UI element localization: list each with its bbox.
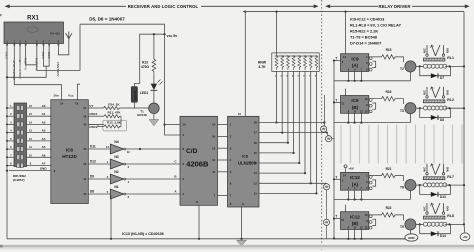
svg-text:T: T	[335, 215, 337, 219]
svg-text:BC548: BC548	[137, 113, 147, 117]
RX1 pin wires	[7, 38, 80, 239]
vcc rail to r13	[135, 34, 165, 86]
svg-text:14: 14	[254, 161, 258, 165]
IC6 right upper pins VT OSC	[88, 108, 104, 124]
ground under T1	[153, 114, 155, 120]
section header: receiver and logic control arrow	[6, 5, 316, 7]
flip-flop IC12 (A), R21, transistor T8, relay RL7, diode D13	[333, 164, 465, 201]
svg-text:17: 17	[83, 106, 87, 110]
svg-text:GND: GND	[40, 167, 48, 171]
inverter N4	[106, 140, 180, 154]
IC6 gnd pin9 wire	[9, 170, 51, 172]
section header: relay driver arrow	[327, 5, 468, 7]
svg-text:vcc 5v: vcc 5v	[167, 34, 178, 38]
svg-text:(B): (B)	[352, 105, 359, 110]
svg-text:N/O: N/O	[446, 89, 450, 95]
+6V terminal for IC12	[344, 165, 347, 168]
svg-text:D in: D in	[54, 94, 59, 98]
svg-text:IC13 (N1-N5) = CD40106: IC13 (N1-N5) = CD40106	[122, 232, 164, 236]
IC8 COM pin10 wire up	[244, 12, 246, 117]
DIP rows / IC6 address pins A0-A7	[7, 108, 51, 166]
svg-text:N2: N2	[114, 170, 118, 174]
svg-text:R12, 3.9K: R12, 3.9K	[107, 121, 122, 125]
svg-text:T: T	[335, 175, 337, 179]
svg-text:T2: T2	[400, 67, 404, 71]
svg-text:N1: N1	[114, 185, 118, 189]
svg-text:IC6: IC6	[66, 148, 74, 153]
svg-text:(A): (A)	[352, 63, 359, 68]
LED1	[151, 84, 158, 90]
svg-text:13: 13	[212, 146, 216, 150]
svg-text:N/O: N/O	[446, 205, 450, 211]
wire links to jumper connectors at section boundary	[324, 95, 334, 239]
vcc wire top run	[78, 24, 181, 135]
svg-text:N/O: N/O	[446, 166, 450, 172]
svg-text:A5: A5	[42, 145, 46, 149]
resistor R12 boxed	[103, 120, 127, 131]
svg-text:IC12: IC12	[350, 214, 360, 219]
IC8 gnd pin9	[241, 207, 243, 240]
svg-text:A7: A7	[42, 162, 46, 166]
svg-text:16: 16	[254, 141, 258, 145]
svg-text:IC12: IC12	[350, 175, 360, 180]
wire pin8 antenna	[58, 38, 68, 55]
wire +6V feed to IC9 pin 14	[345, 12, 347, 54]
svg-text:T9: T9	[400, 225, 404, 229]
IC8 output wires staircase	[259, 123, 327, 194]
DIP rockers	[17, 106, 24, 168]
svg-text:R14, 1K: R14, 1K	[108, 102, 120, 106]
IC7 gnd wire to rail	[198, 205, 200, 239]
inverter N1	[107, 185, 180, 199]
IC7 decoder CD4206B	[180, 116, 218, 205]
svg-text:C/D: C/D	[186, 148, 198, 155]
svg-text:15: 15	[212, 123, 216, 127]
svg-text:470Ω: 470Ω	[141, 65, 149, 69]
wire pin3 linear out stub	[19, 44, 21, 63]
svg-text:D7-D14 = 1N4007: D7-D14 = 1N4007	[350, 41, 381, 46]
svg-text:A0: A0	[42, 104, 46, 108]
svg-text:R16: R16	[386, 90, 392, 94]
+6V supply oval bottom right	[463, 224, 466, 233]
svg-text:LED1: LED1	[140, 91, 149, 95]
svg-text:N/O: N/O	[446, 47, 450, 53]
svg-text:12: 12	[83, 162, 87, 166]
svg-text:A1: A1	[42, 112, 46, 116]
svg-text:D7: D7	[440, 76, 444, 80]
svg-text:VT: VT	[89, 104, 93, 108]
svg-text:(A): (A)	[352, 182, 359, 187]
svg-text:A3: A3	[42, 129, 46, 133]
svg-text:T: T	[335, 98, 337, 102]
svg-text:15: 15	[83, 123, 87, 127]
svg-text:HT12D: HT12D	[62, 154, 77, 159]
svg-text:10: 10	[83, 192, 87, 196]
svg-text:D8: D8	[90, 189, 94, 193]
svg-text:16: 16	[83, 114, 87, 118]
svg-text:12: 12	[254, 181, 258, 185]
svg-text:RL7: RL7	[447, 175, 454, 179]
svg-text:+6V: +6V	[463, 235, 468, 239]
transistor T1	[153, 90, 155, 103]
svg-text:+6V: +6V	[348, 167, 353, 171]
svg-text:RL1-RL8 = 6V, 1 C/O RELAY: RL1-RL8 = 6V, 1 C/O RELAY	[350, 23, 401, 28]
svg-text:18: 18	[254, 121, 258, 125]
RNW pull-up drops to outputs	[277, 71, 317, 193]
svg-text:R22: R22	[386, 206, 392, 210]
svg-text:14: 14	[212, 135, 216, 139]
RNW common rail and feed	[276, 12, 278, 56]
svg-text:LINEAR OUT: LINEAR OUT	[18, 60, 22, 79]
svg-text:RL1: RL1	[447, 56, 454, 60]
svg-text:14: 14	[60, 102, 64, 106]
inverter N3	[107, 155, 180, 169]
jumper connectors CH1-CH4 at section boundary	[321, 126, 332, 225]
junction rx gnd	[6, 76, 8, 78]
wires IC7 to IC8	[218, 125, 228, 196]
svg-text:18: 18	[75, 102, 79, 106]
flip-flop IC9 (A), R15, transistor T2, relay RL1, diode D7	[333, 45, 465, 82]
svg-text:R15-R22 = 2.2K: R15-R22 = 2.2K	[350, 29, 378, 34]
svg-text:D11: D11	[90, 144, 96, 148]
flip-flop IC12 (B), R22, transistor T9, relay RL8, diode D14	[333, 203, 465, 240]
svg-text:12: 12	[212, 158, 216, 162]
svg-text:N3: N3	[114, 155, 118, 159]
inverter N2	[107, 170, 180, 184]
ground rail bottom	[7, 238, 405, 240]
svg-text:D12: D12	[90, 159, 96, 163]
svg-text:OSC2: OSC2	[89, 125, 98, 129]
svg-text:RECEIVER AND LOGIC CONTROL: RECEIVER AND LOGIC CONTROL	[128, 4, 199, 9]
IC6 HT12D	[51, 100, 89, 204]
svg-text:SIGNAL: SIGNAL	[133, 90, 137, 101]
svg-text:15: 15	[254, 151, 258, 155]
svg-text:T: T	[335, 57, 337, 61]
svg-text:OSC1: OSC1	[89, 112, 98, 116]
svg-text:T1-T9 = BC548: T1-T9 = BC548	[350, 35, 378, 40]
svg-text:17: 17	[254, 131, 258, 135]
svg-text:RELAY DRIVER: RELAY DRIVER	[379, 4, 411, 9]
svg-text:(B): (B)	[352, 221, 359, 226]
wire relay section common vertical (clock/ground bus)	[333, 61, 335, 239]
supply rail top (+)	[243, 11, 464, 13]
SIGNAL tag	[131, 87, 137, 103]
svg-text:11: 11	[212, 170, 215, 174]
svg-text:R11, 47K: R11, 47K	[108, 111, 122, 115]
bottom scan band	[0, 245, 474, 248]
svg-text:RX1: RX1	[27, 16, 39, 22]
svg-text:A2: A2	[42, 120, 46, 124]
RX1 pin pads	[6, 44, 59, 46]
svg-text:4206B: 4206B	[186, 160, 209, 169]
RNW resistor zigzags	[275, 56, 318, 70]
notes block relay driver	[350, 17, 401, 46]
antenna symbol	[66, 32, 72, 39]
svg-text:10: 10	[238, 112, 242, 116]
svg-text:10: 10	[183, 123, 187, 127]
wire pin2 digital out	[14, 44, 61, 100]
svg-text:RX-433: RX-433	[50, 32, 60, 36]
GND terminal oval	[405, 234, 418, 241]
dashed section divider	[321, 0, 323, 252]
svg-text:IC9-IC12 = CD4013: IC9-IC12 = CD4013	[350, 17, 385, 22]
svg-text:IC8: IC8	[242, 155, 248, 159]
svg-text:13: 13	[83, 147, 87, 151]
svg-text:11: 11	[83, 177, 86, 181]
svg-text:D14: D14	[440, 234, 446, 238]
svg-text:A4: A4	[42, 137, 46, 141]
svg-text:ANTENNA: ANTENNA	[56, 61, 60, 77]
IC6 data pins D11 D12 D9 D8	[88, 149, 110, 194]
svg-text:D5, D6 = 1N4007: D5, D6 = 1N4007	[89, 16, 125, 21]
svg-text:IC9: IC9	[351, 56, 359, 61]
svg-text:V cc: V cc	[68, 94, 74, 98]
svg-text:T3: T3	[400, 109, 404, 113]
svg-text:IC9: IC9	[351, 98, 359, 103]
svg-text:T8: T8	[400, 186, 404, 190]
svg-text:D8: D8	[440, 118, 444, 122]
svg-text:13: 13	[254, 171, 258, 175]
svg-text:R21: R21	[386, 167, 392, 171]
svg-text:(8-WAY): (8-WAY)	[13, 178, 25, 182]
wire pins6-7 gnd join	[43, 44, 49, 67]
DIP switch SW2	[14, 103, 27, 167]
svg-text:RL8: RL8	[447, 214, 454, 218]
RNW pin numbers	[275, 75, 317, 78]
wire vcc drop to IC7 pin10	[165, 124, 181, 126]
svg-text:4.7K: 4.7K	[258, 65, 266, 69]
svg-text:11: 11	[254, 192, 257, 196]
svg-text:N4: N4	[114, 140, 118, 144]
svg-text:D13: D13	[440, 195, 446, 199]
wire N1 input drop to ground rail	[110, 196, 112, 239]
svg-text:RL2: RL2	[447, 98, 454, 102]
svg-text:D9: D9	[90, 174, 94, 178]
svg-text:GND: GND	[408, 236, 414, 240]
continuation hatch marks	[341, 125, 462, 164]
svg-text:R15: R15	[386, 48, 392, 52]
RX1 pin labels (rotated)	[5, 51, 61, 80]
flip-flop IC9 (B), R16, transistor T3, relay RL2, diode D8	[333, 87, 465, 124]
IC8 ULN2803	[228, 116, 260, 207]
svg-text:A6: A6	[42, 153, 46, 157]
wire pin1 gnd down rail	[6, 44, 8, 239]
wire pins4-5 vcc join	[26, 44, 37, 65]
